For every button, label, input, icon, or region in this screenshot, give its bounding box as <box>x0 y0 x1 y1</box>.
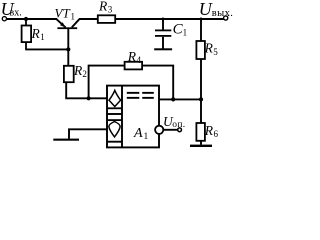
node R5 rail junction <box>200 18 203 21</box>
svg-text:1: 1 <box>144 132 149 142</box>
A1 reference symbol (cell 1 droplet) <box>109 90 121 106</box>
capacitor C1 <box>155 19 171 49</box>
terminal Uвх (input) <box>2 17 6 21</box>
svg-text:VT: VT <box>55 5 71 20</box>
wire input rail <box>7 18 58 20</box>
A1 cell 2 overbar <box>108 119 122 121</box>
node feedback junction <box>87 96 91 100</box>
svg-text:1: 1 <box>71 11 76 21</box>
node R5/R6 junction <box>199 97 203 101</box>
wire A1 right side to R5/R6 node <box>159 98 201 100</box>
svg-text:R: R <box>204 123 214 138</box>
svg-text:3: 3 <box>108 5 113 15</box>
transistor VT1 base bar <box>57 27 77 29</box>
op-amp block A1 <box>107 86 159 148</box>
A1 cell 1 underbar <box>108 107 122 109</box>
svg-text:U: U <box>199 0 213 19</box>
resistor R5 <box>196 19 205 99</box>
wire collector to R3 <box>79 18 98 20</box>
svg-text:R: R <box>127 49 137 64</box>
svg-text:6: 6 <box>214 129 219 139</box>
svg-text:оп.: оп. <box>172 120 185 130</box>
wire R1 bottom to VT1 base line <box>25 48 68 50</box>
svg-text:A: A <box>133 126 143 141</box>
transistor VT1 (PNP, emitter left) <box>57 19 80 66</box>
svg-text:вых.: вых. <box>212 8 233 19</box>
svg-text:R: R <box>204 41 214 56</box>
node R4 output junction <box>171 97 175 101</box>
svg-text:R: R <box>98 0 108 14</box>
wire A1 input 2 to ground <box>69 129 107 138</box>
A1 output bubble <box>155 126 163 134</box>
svg-text:4: 4 <box>137 55 142 65</box>
svg-text:2: 2 <box>82 69 87 79</box>
transistor VT1 emitter arrow <box>60 22 65 27</box>
wire R3 to output terminal <box>115 18 223 20</box>
node C1 rail junction <box>162 18 165 21</box>
wire R2 bottom to A1 input 1 <box>65 97 107 99</box>
svg-text:1: 1 <box>183 27 188 37</box>
svg-text:вх.: вх. <box>10 8 22 19</box>
resistor R1 <box>22 19 32 49</box>
wire A1 output to Uоп terminal <box>163 129 177 131</box>
svg-text:5: 5 <box>213 47 218 57</box>
svg-text:R: R <box>31 26 41 41</box>
A1 reference symbol (cell 2 droplet) <box>109 122 120 137</box>
ground R6 <box>190 145 212 147</box>
node base junction <box>66 47 70 51</box>
resistor R6 <box>196 99 205 144</box>
terminal Uвых (output) <box>224 16 228 20</box>
resistor R3 <box>98 15 115 23</box>
resistor R2 <box>64 66 74 99</box>
svg-text:1: 1 <box>40 32 45 42</box>
ground C1 <box>154 48 172 50</box>
terminal Uоп <box>178 128 182 132</box>
resistor R4 with leads <box>89 62 174 100</box>
A1 comparator == symbol <box>127 92 154 99</box>
node R1 top junction <box>24 17 28 21</box>
ground input 2 <box>53 139 79 141</box>
